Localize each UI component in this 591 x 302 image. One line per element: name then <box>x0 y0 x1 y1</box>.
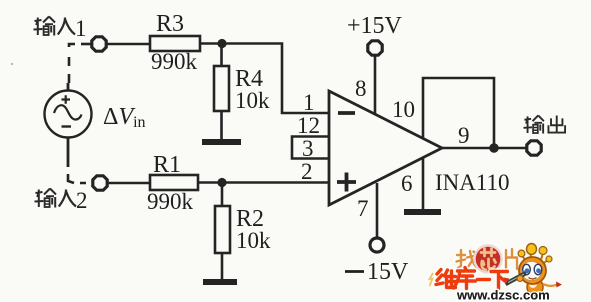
wire: R3 to node A and corner down to pin1 <box>200 44 329 114</box>
svg-text:990k: 990k <box>147 189 194 214</box>
svg-text:INA110: INA110 <box>435 170 510 195</box>
terminal J3 (output) <box>527 141 541 155</box>
terminal -15V <box>370 238 384 252</box>
node 输出 label <box>523 115 565 133</box>
scan speck <box>11 63 13 65</box>
svg-text:10k: 10k <box>236 228 271 253</box>
wire: R2 to ground <box>221 253 224 279</box>
svg-text:1: 1 <box>303 90 315 115</box>
resistor R3 <box>150 36 200 51</box>
svg-text:2: 2 <box>76 188 88 213</box>
body <box>527 279 543 296</box>
svg-text:3: 3 <box>302 136 314 161</box>
crown balls <box>523 254 547 264</box>
left arm with pen <box>506 273 527 284</box>
svg-text:12: 12 <box>297 113 320 138</box>
svg-text:8: 8 <box>355 76 367 101</box>
svg-text:990k: 990k <box>151 49 198 74</box>
svg-text:10k: 10k <box>235 88 270 113</box>
wire: input1 terminal stub left <box>81 43 92 46</box>
wire: feedback box pin10 to output node <box>423 78 494 148</box>
output node junction dot <box>489 143 499 153</box>
svg-text:6: 6 <box>401 171 413 196</box>
mouth <box>529 278 537 280</box>
wire: +15V to pin8 <box>374 55 377 115</box>
svg-text:1: 1 <box>75 16 87 41</box>
head <box>519 257 546 284</box>
wire: node B to R2 <box>221 183 224 206</box>
watermark 片 glyph <box>506 249 517 269</box>
op-amp minus input mark <box>338 111 355 115</box>
wire: R1 to node B to pin2 <box>198 181 329 184</box>
wire: dashed link terminal to source VS <box>69 44 75 83</box>
source VS (ΔVin) <box>45 83 92 167</box>
svg-text:7: 7 <box>357 196 369 221</box>
wire: dashed link source to input2 terminal <box>68 174 86 183</box>
resistor R2 <box>215 206 230 253</box>
label -15V <box>345 270 364 273</box>
wire: J1 to R3 <box>106 43 150 46</box>
watermark mascot <box>504 244 563 300</box>
ground (pin 6) <box>404 209 441 215</box>
wire: J2 to R1 <box>107 182 150 185</box>
terminal +15V <box>368 41 382 55</box>
wire: node A to R4 <box>220 43 223 66</box>
eyes <box>523 264 531 274</box>
node 输入1 label <box>34 17 56 36</box>
terminal J1 (input 1) <box>92 37 106 51</box>
watermark 维库一下 text <box>436 268 508 289</box>
wire: op-amp output to terminal <box>440 147 528 150</box>
svg-text:10: 10 <box>392 97 415 122</box>
watermark 找 glyph <box>457 250 479 268</box>
svg-text:+15V: +15V <box>347 13 403 39</box>
op-amp plus input mark <box>337 173 356 192</box>
terminal J2 (input 2) <box>93 176 107 190</box>
svg-text:2: 2 <box>301 159 313 184</box>
node A junction dot <box>217 39 226 48</box>
ground (R2) <box>203 279 237 285</box>
wire: jumper pin12 to pin3 <box>292 137 329 159</box>
resistor R1 <box>150 175 198 190</box>
svg-text:www.dzsc.com: www.dzsc.com <box>456 288 550 302</box>
node 输入2 label <box>35 189 57 208</box>
watermark 芯 glyph <box>481 249 496 271</box>
ground (R4) <box>202 139 241 145</box>
wire: pin6 to ground <box>422 158 425 209</box>
svg-text:9: 9 <box>458 123 470 148</box>
wire: pin7 to -15V terminal <box>376 183 379 239</box>
legs <box>527 294 542 300</box>
node B junction dot <box>217 178 226 187</box>
watermark magnifier circle around 芯 <box>475 246 502 273</box>
svg-text:15V: 15V <box>367 259 409 285</box>
svg-text:R3: R3 <box>156 11 184 37</box>
op-amp U1 INA110 triangle <box>329 91 442 205</box>
resistor R4 <box>214 66 229 111</box>
watermark yellow sparkle <box>430 273 434 286</box>
wire: R4 to ground <box>220 111 223 139</box>
right arm <box>543 284 557 286</box>
